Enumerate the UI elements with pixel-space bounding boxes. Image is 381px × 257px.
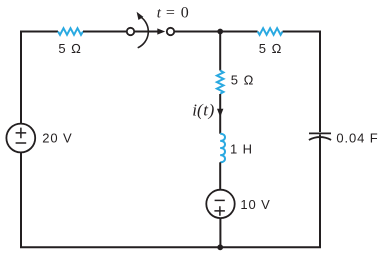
svg-text:0: 0: [181, 5, 189, 22]
resistor R1: [58, 28, 83, 35]
current arrow i(t): [217, 109, 223, 117]
capacitor C1: [309, 132, 331, 134]
inductor L1: [220, 134, 225, 163]
svg-text:0.04 F: 0.04 F: [336, 131, 378, 146]
svg-text:=: =: [166, 5, 175, 22]
wire capacitor to bottom right corner: [221, 134, 320, 247]
wire V2 to bottom node: [219, 218, 221, 247]
switch S1 motion arc: [138, 17, 149, 48]
svg-text:5 Ω: 5 Ω: [231, 73, 255, 88]
wire switch to R2 with node A: [174, 31, 257, 33]
resistor R2: [258, 28, 283, 35]
resistor R3: [217, 71, 224, 94]
V1 plus sign: [16, 128, 27, 139]
V2 plus sign: [214, 206, 225, 216]
wire R3 to inductor: [219, 94, 221, 134]
V2 minus sign: [215, 199, 225, 201]
svg-text:5 Ω: 5 Ω: [58, 41, 82, 56]
svg-text:20 V: 20 V: [42, 131, 72, 146]
svg-text:10 V: 10 V: [240, 197, 270, 212]
bottom junction dot: [217, 244, 223, 250]
switch S1 arm arrow: [134, 31, 158, 33]
wire node A down to R3: [219, 32, 221, 71]
wire inductor to V2: [219, 162, 221, 190]
switch S1 pole circle: [127, 28, 134, 35]
voltage source V2 circle: [206, 190, 234, 218]
voltage source V1 circle: [6, 124, 35, 153]
switch S1 throw circle: [167, 28, 174, 35]
wire bottom left: [21, 152, 220, 247]
wire left+top segment to R1: [21, 32, 58, 124]
svg-text:5 Ω: 5 Ω: [259, 41, 283, 56]
node A junction dot: [217, 29, 223, 35]
wire R2 to right top corner down to capacitor: [283, 32, 320, 133]
svg-text:i(t): i(t): [192, 101, 214, 120]
wire R1 to switch: [83, 31, 127, 33]
V1 minus sign: [16, 142, 27, 144]
svg-text:1 H: 1 H: [230, 141, 253, 156]
svg-text:t: t: [157, 6, 162, 22]
